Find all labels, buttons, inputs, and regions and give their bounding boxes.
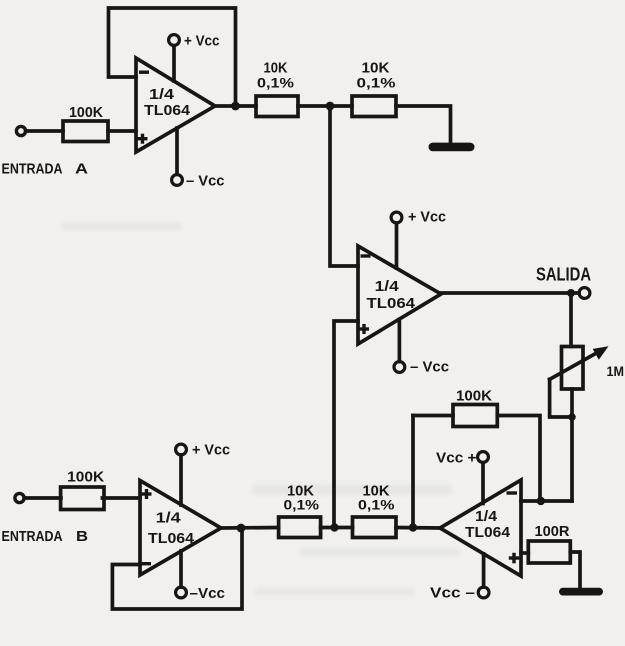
wire: between bottom resistors	[321, 526, 353, 530]
power terminal Vcc + (U4)	[478, 452, 489, 504]
potentiometer 1M	[550, 346, 609, 417]
svg-text:1M: 1M	[607, 364, 625, 379]
wire: input B to 100K resistor	[24, 496, 61, 500]
svg-text:100K: 100K	[69, 104, 103, 121]
wire: U4 non-inverting input to 100R	[521, 551, 528, 555]
svg-text:+ Vcc: + Vcc	[192, 443, 230, 459]
wire: U4 output node up to 100K feedback	[411, 416, 415, 528]
label 10K 0,1% (bottom second)	[358, 484, 395, 513]
label 10K 0,1% (top first)	[257, 61, 294, 91]
feedback wire: U3 output to inverting input	[112, 528, 242, 609]
svg-text:0,1%: 0,1%	[358, 498, 395, 513]
wire: 100K right down to U4 inverting net	[497, 416, 540, 502]
svg-text:TL064: TL064	[144, 102, 191, 119]
svg-text:+ Vcc: + Vcc	[408, 210, 446, 226]
label 10K 0,1% (top second)	[357, 61, 396, 91]
svg-text:1/4: 1/4	[149, 86, 175, 103]
wire: U3 output	[221, 526, 279, 530]
label ENTRADA A	[2, 162, 89, 178]
svg-text:TL064: TL064	[148, 530, 195, 547]
node: U4 output junction	[409, 523, 417, 531]
resistor 10K 0,1% (top second)	[352, 96, 396, 117]
svg-text:1/4: 1/4	[156, 510, 182, 527]
power terminal +Vcc (U3)	[176, 444, 187, 505]
node: top divider junction	[326, 102, 335, 111]
power terminal -Vcc (U2)	[394, 319, 405, 372]
op-amp U4 (1/4 TL064, mirrored)	[440, 480, 521, 576]
svg-text:– Vcc: – Vcc	[410, 360, 449, 376]
power terminal +Vcc (U1)	[169, 35, 180, 81]
resistor 100K (input B)	[61, 487, 104, 510]
op-amp U3 (1/4 TL064, buffer B)	[140, 481, 221, 576]
op-amp U2 (1/4 TL064, output amp)	[358, 246, 441, 344]
wire: 100R to ground	[570, 552, 580, 588]
resistor 10K 0,1% (bottom second)	[353, 517, 397, 538]
op-amp U1 (1/4 TL064, buffer A)	[136, 58, 215, 152]
resistor 10K 0,1% (top first)	[256, 96, 298, 117]
power terminal +Vcc (U2)	[391, 212, 402, 268]
resistor 100R	[528, 541, 570, 563]
wire: pot junction down to U4 inverting net	[570, 417, 574, 501]
svg-text:TL064: TL064	[367, 295, 416, 312]
node: bottom divider junction	[330, 523, 338, 531]
wire: SALIDA node down to potentiometer	[569, 293, 573, 347]
wire: U2 non-inverting input down to bottom divider node	[334, 321, 358, 528]
wire: top divider node down to U2 inverting input	[330, 106, 358, 266]
power terminal -Vcc (U1)	[172, 128, 183, 185]
svg-text:ENTRADA: ENTRADA	[2, 529, 63, 545]
svg-text:Vcc –: Vcc –	[430, 586, 475, 602]
resistor 10K 0,1% (bottom first)	[279, 517, 321, 538]
ground (bottom)	[559, 588, 603, 596]
resistor 100K (U4 feedback)	[453, 405, 497, 427]
wire: input A to 100K resistor	[26, 129, 63, 133]
node: SALIDA junction	[567, 289, 575, 297]
wire: 100K to U1 non-inverting input	[108, 129, 136, 133]
terminal SALIDA	[579, 288, 590, 299]
svg-text:0,1%: 0,1%	[357, 76, 396, 91]
wire: 100K to U3 non-inverting input	[102, 496, 140, 500]
node: pot bottom junction	[568, 413, 576, 421]
svg-text:ENTRADA: ENTRADA	[2, 162, 63, 178]
wire: U2 output to SALIDA	[441, 291, 579, 295]
terminal: ENTRADA A input	[16, 126, 25, 135]
node: U1 output junction	[231, 102, 240, 111]
node: U3 output junction	[237, 524, 246, 533]
power terminal Vcc - (U4)	[478, 554, 489, 598]
svg-text:SALIDA: SALIDA	[536, 264, 591, 285]
wire: bottom second resistor to U4 output	[396, 526, 440, 530]
resistor 100K (input A)	[63, 121, 108, 142]
svg-text:TL064: TL064	[465, 524, 511, 541]
wire: U1 output	[215, 104, 256, 108]
svg-text:10K: 10K	[264, 61, 288, 77]
wire: U4 inverting input net	[521, 499, 572, 503]
wire: feedback node to 100K left	[413, 414, 453, 418]
svg-text:100K: 100K	[456, 388, 492, 405]
feedback wire: U1 output to inverting input	[109, 8, 236, 106]
svg-text:10K: 10K	[362, 61, 391, 77]
svg-text:A: A	[75, 162, 89, 178]
svg-text:B: B	[76, 529, 88, 545]
svg-text:0,1%: 0,1%	[257, 76, 294, 91]
svg-text:– Vcc: – Vcc	[186, 174, 225, 190]
svg-text:0,1%: 0,1%	[284, 498, 320, 513]
svg-text:1/4: 1/4	[375, 278, 400, 295]
power terminal -Vcc (U3)	[176, 551, 187, 598]
ground (top)	[429, 143, 475, 152]
svg-text:–Vcc: –Vcc	[190, 586, 226, 602]
node: U4 inverting input junction	[537, 497, 545, 505]
svg-text:Vcc +: Vcc +	[436, 451, 477, 467]
wire: top second resistor to ground	[396, 106, 451, 143]
svg-text:100R: 100R	[535, 523, 570, 540]
svg-text:+ Vcc: + Vcc	[184, 34, 220, 50]
svg-text:100K: 100K	[67, 469, 104, 486]
terminal: ENTRADA B input	[15, 493, 24, 502]
wire: between top resistors	[298, 104, 352, 108]
svg-text:1/4: 1/4	[475, 508, 498, 525]
label ENTRADA B	[2, 529, 89, 545]
label 10K 0,1% (bottom first)	[284, 484, 320, 513]
